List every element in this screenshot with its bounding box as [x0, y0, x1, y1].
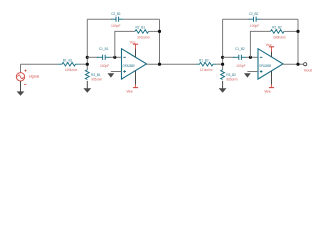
svg-text:Vee: Vee: [264, 89, 271, 94]
svg-text:Vcc: Vcc: [130, 39, 136, 44]
svg-text:OPA2889: OPA2889: [123, 64, 135, 68]
wire source to ground: [20, 81, 22, 92]
wire R3_B1 to ground: [86, 81, 88, 89]
ground under R3_B2: [219, 88, 227, 92]
svg-text:C1_B1: C1_B1: [99, 46, 109, 51]
svg-text:signal: signal: [29, 73, 40, 78]
wire feedback vertical stage1: [159, 19, 161, 64]
junction node B lower: [221, 63, 224, 66]
svg-text:Vout: Vout: [304, 68, 313, 73]
resistor R3_B1: [85, 70, 89, 80]
wire node A vertical: [86, 19, 88, 70]
junction node A lower: [86, 63, 89, 66]
svg-text:R1_B1: R1_B1: [63, 58, 73, 63]
wire source drop: [20, 64, 22, 72]
junction node A upper: [86, 56, 89, 59]
op-amp U2 plus pin: [260, 70, 263, 73]
op-amp U2 minus pin: [260, 56, 263, 58]
junction stage2 output node Vout: [296, 63, 299, 66]
capacitor C1_B1: [97, 55, 110, 60]
svg-text:R2_B1: R2_B1: [136, 24, 146, 29]
ground under source: [17, 91, 25, 95]
svg-text:C1_B2: C1_B2: [235, 46, 245, 51]
wire R2_B1 left leg: [115, 31, 135, 57]
svg-text:C2_B2: C2_B2: [249, 11, 259, 16]
svg-text:130kohm: 130kohm: [65, 67, 78, 72]
resistor R1_B2: [196, 62, 217, 66]
wire feedback vertical stage2: [297, 19, 299, 64]
svg-text:100pF: 100pF: [250, 23, 260, 28]
svg-text:301kohm: 301kohm: [137, 35, 150, 40]
junction stage1 output node: [158, 63, 161, 66]
wire node B to C1_B2: [223, 56, 235, 58]
svg-text:Vee: Vee: [126, 89, 133, 94]
capacitor C2_B2: [249, 17, 261, 22]
svg-text:865ohm: 865ohm: [227, 76, 238, 81]
resistor R3_B2: [221, 70, 225, 80]
svg-text:905ohm: 905ohm: [91, 76, 102, 81]
junction node B upper: [221, 56, 224, 59]
output terminal Vout: [304, 63, 307, 66]
Vee supply op-amp U1: [133, 71, 138, 88]
resistor R2_B1: [135, 30, 149, 34]
svg-text:R2_B2: R2_B2: [272, 24, 282, 29]
op-amp U2 OPA2889: [258, 49, 283, 79]
wire R2_B1 to feedback vertical: [149, 30, 160, 32]
Vcc supply op-amp U2: [269, 47, 274, 57]
junction inverting node stage1: [113, 56, 116, 59]
op-amp U1 plus pin: [123, 70, 126, 73]
wire op-amp U2 output rail: [283, 63, 303, 65]
wire node A to C1_B1: [87, 56, 98, 58]
wire R2_B2 to feedback vertical: [284, 30, 298, 32]
wire R3_B2 to ground: [222, 81, 224, 89]
svg-text:R1_B2: R1_B2: [199, 58, 209, 63]
wire op-amp U2 plus input to ground: [247, 71, 258, 73]
svg-text:100pF: 100pF: [111, 23, 121, 28]
wire C2_B1 to feedback vertical: [123, 18, 159, 20]
wire C2_B2 to feedback vertical: [261, 18, 298, 20]
Vee supply op-amp U2: [269, 71, 274, 88]
ground at op-amp U1 plus input: [108, 73, 115, 77]
resistor R2_B2: [271, 30, 285, 34]
wire C1_B1 to op-amp inverting input: [110, 56, 122, 58]
wire node B vertical: [222, 19, 224, 70]
svg-text:100pF: 100pF: [236, 63, 246, 68]
voltage source VG1 signal: [16, 70, 26, 85]
wire op-amp U1 output rail: [147, 63, 197, 65]
ground at op-amp U2 plus input: [244, 73, 251, 77]
capacitor C1_B2: [233, 55, 246, 60]
svg-text:100pF: 100pF: [100, 63, 110, 68]
wire R2_B2 left leg: [250, 31, 270, 57]
wire R1_B1 to node: [80, 63, 88, 65]
svg-text:121kohm: 121kohm: [200, 67, 213, 72]
junction inverting node stage2: [249, 56, 252, 59]
resistor R1_B1: [58, 62, 80, 66]
wire input rail from source to R1_B1: [21, 63, 59, 65]
junction feedback R2_B2: [296, 30, 299, 33]
wire C1_B2 to op-amp inverting input: [246, 56, 258, 58]
capacitor C2_B1: [111, 17, 123, 22]
wire C2_B2 top from node B: [223, 18, 250, 20]
wire op-amp U1 plus input to ground: [111, 71, 122, 73]
svg-text:280kohm: 280kohm: [273, 35, 286, 40]
junction feedback R2_B1: [158, 30, 161, 33]
svg-text:C2_B1: C2_B1: [111, 11, 121, 16]
wire R1_B2 to node: [217, 63, 223, 65]
svg-text:Vcc: Vcc: [266, 42, 272, 47]
ground under R3_B1: [83, 88, 91, 92]
op-amp U1 minus pin: [123, 56, 126, 58]
svg-text:OPA2889: OPA2889: [259, 64, 271, 68]
op-amp U1 OPA2889: [122, 49, 147, 79]
wire C2_B1 top from node A: [87, 18, 112, 20]
Vcc supply op-amp U1: [133, 44, 138, 57]
